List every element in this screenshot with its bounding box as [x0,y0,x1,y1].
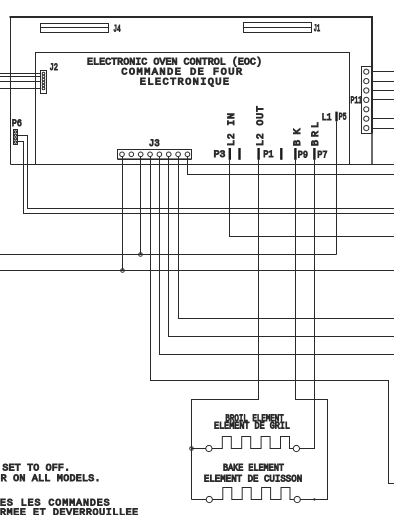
border left [10,16,12,165]
wire net P9 BK to bake right [296,160,328,500]
junction J3 pin1 [121,269,125,273]
svg-text:ELEMENT DE CUISSON: ELEMENT DE CUISSON [204,473,302,484]
wire P11 pin1 [372,71,394,73]
wire net P1 L2OUT to element rail [192,160,259,500]
junction broil left [190,447,194,451]
junction dot bake right [313,498,315,500]
connector J4 [41,24,109,33]
svg-text:RMEE ET DEVERROUILLEE: RMEE ET DEVERROUILLEE [0,508,138,515]
svg-text:BK: BK [293,129,304,147]
pin bar P9 [294,148,296,160]
border right (thick) [371,16,373,134]
wire J3 pin7 [179,157,394,319]
wire J3 pin1 [122,157,124,271]
wire J3 pin4 [151,157,394,484]
svg-text:P5: P5 [339,112,347,123]
connector J2 [41,71,47,94]
pin bar P3 [229,148,231,160]
wire net neutral [0,270,394,272]
connector J3 [118,150,192,159]
svg-text:P11: P11 [351,96,363,107]
connector J1 [244,23,312,33]
pin bar P5 [335,112,337,122]
svg-text:P6: P6 [12,119,22,130]
wire J2 pin3 [0,81,41,83]
bake element terminal left [206,496,212,502]
wire stub broil left [192,448,206,450]
bake element terminal right [294,496,300,502]
wire J2 pin6 [0,88,41,90]
wire J3 pin5 [160,157,394,355]
pin bar P7 [313,148,315,160]
svg-text:ELEMENT DE GRIL: ELEMENT DE GRIL [214,421,290,432]
broil element body [212,437,293,449]
svg-text:R ON ALL MODELS.: R ON ALL MODELS. [1,474,101,485]
bake element body [213,488,295,500]
svg-text:L2 IN: L2 IN [227,113,238,146]
svg-text:SET TO OFF.: SET TO OFF. [2,463,70,474]
wire J3 pin3 [140,157,142,255]
junction J3 pin3 [139,253,143,257]
wire P6 pin4 [18,142,394,214]
svg-text:J4: J4 [113,25,121,36]
broil element terminal right [293,445,299,451]
pin bar P1 [257,148,259,160]
wire net L1 to P5 [0,254,337,256]
wire J2 pin1 [0,73,41,75]
wire J2 pin2 [0,76,41,78]
pin bar spare A [238,148,240,160]
svg-text:L2 OUT: L2 OUT [256,106,267,146]
svg-text:BRL: BRL [311,122,322,146]
svg-text:BAKE ELEMENT: BAKE ELEMENT [223,463,284,474]
wire P6 pin2 [18,136,394,209]
wire J3 pin8 [188,157,394,175]
svg-text:J3: J3 [149,139,160,150]
border top (thick) [10,16,374,18]
broil element terminal left [206,445,212,451]
svg-text:ELECTRONIQUE: ELECTRONIQUE [140,77,229,89]
wire P11 pin4 [372,99,394,101]
svg-text:J1: J1 [314,24,321,35]
svg-text:P7: P7 [317,151,327,162]
wire P11 pin6 [372,118,394,120]
svg-text:P1: P1 [263,150,273,161]
wire P11 pin7 [372,128,394,130]
svg-text:L1: L1 [322,113,332,124]
heading text EOC [87,56,262,88]
wire J3 pin6 [169,157,394,337]
wire P11 pin3 [372,90,394,92]
svg-text:J2: J2 [50,63,59,74]
svg-text:P9: P9 [298,151,308,162]
wire P11 pin2 [372,81,394,83]
connector P11 [362,67,372,134]
pin bar spare B [280,148,282,160]
wire stub bake left [192,499,207,501]
wire net P7 BRL to broil right [300,160,315,449]
wire P5 L1 [336,121,338,254]
wire net P3 L2IN [230,160,394,237]
border right lower segment [371,134,373,165]
svg-text:P3: P3 [214,150,226,161]
connector P6 [14,130,18,145]
EOC board box [36,53,350,165]
bottom bus wire [11,164,394,166]
